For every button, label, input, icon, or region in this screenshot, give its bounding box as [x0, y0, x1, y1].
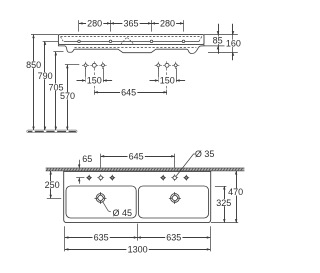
dimension 150 right group: [158, 68, 160, 83]
svg-text:160: 160: [226, 39, 241, 49]
svg-text:Ø 35: Ø 35: [195, 149, 215, 159]
svg-text:365: 365: [123, 19, 138, 29]
svg-text:850: 850: [26, 60, 41, 70]
svg-text:790: 790: [38, 71, 53, 81]
svg-text:470: 470: [228, 187, 243, 197]
dimension 85 (rim height): [204, 34, 238, 36]
hidden overflow caret (dashed): [121, 37, 134, 44]
dimension 65 (wall to tap holes): [79, 160, 81, 168]
hidden underside edge (dashed): [75, 47, 197, 49]
svg-text:635: 635: [166, 233, 181, 243]
svg-text:570: 570: [60, 91, 75, 101]
svg-text:85: 85: [213, 35, 223, 45]
dimension 1300 (overall width): [65, 249, 210, 251]
svg-text:645: 645: [129, 151, 144, 161]
right tap hole group (elevation): [156, 63, 160, 67]
height dimension 570: [67, 65, 69, 130]
svg-text:150: 150: [87, 76, 102, 86]
dimension 150 left group: [85, 68, 87, 83]
left tap hole group (elevation): [84, 63, 88, 67]
washbasin front elevation: rim band outline: [58, 35, 204, 45]
svg-text:325: 325: [216, 198, 231, 208]
wall line (hatched band, plan view): [46, 168, 245, 171]
left bowl: [66, 186, 136, 218]
hidden diagonal edges at basin ends (dashed): [61, 37, 64, 43]
dimension 325 (bowl back to front edge): [215, 186, 227, 188]
bottom dimension extension lines: [64, 226, 66, 251]
right bowl: [138, 186, 208, 218]
dimension 160 (total depth): [208, 52, 238, 54]
svg-text:635: 635: [94, 233, 109, 243]
left drain hole: [96, 194, 105, 203]
leader and label diameter 45 (left drain): [103, 202, 111, 212]
hidden inner rim edge (dashed): [61, 36, 202, 38]
right drain hole: [171, 194, 180, 203]
svg-text:150: 150: [160, 76, 175, 86]
front lower edge line through fixing holes: [64, 41, 199, 43]
right tap hole group (plan): [161, 176, 165, 180]
svg-text:280: 280: [87, 19, 102, 29]
basin underside profile: [58, 44, 204, 53]
floor line (hatched bar): [27, 130, 77, 133]
svg-text:645: 645: [121, 87, 136, 97]
top dimension row 280 / 365 / 280: [78, 20, 80, 32]
height dimension 790: [44, 41, 46, 130]
svg-text:Ø 45: Ø 45: [113, 208, 133, 218]
fixing holes on front face: [78, 40, 81, 43]
dimension 635 right: [137, 236, 141, 239]
dimension 470 (basin depth): [211, 222, 238, 224]
dimension 250 (wall to drain): [47, 198, 61, 200]
washbasin plan outline: [64, 171, 211, 222]
svg-text:280: 280: [160, 19, 175, 29]
dimension 645 (plan, between tap groups): [100, 154, 102, 168]
height dimension 705: [55, 52, 57, 130]
dimension 645 between tap groups (elevation): [94, 90, 96, 95]
svg-text:1300: 1300: [128, 245, 148, 255]
leader and label diameter 35 (right tap hole): [176, 154, 195, 176]
height dimension extension lines: [31, 34, 58, 36]
left tap hole group (plan): [87, 176, 91, 180]
svg-text:250: 250: [45, 180, 60, 190]
dimension 635 left: [65, 237, 137, 239]
svg-text:65: 65: [82, 154, 92, 164]
height dimension 850: [33, 35, 35, 131]
